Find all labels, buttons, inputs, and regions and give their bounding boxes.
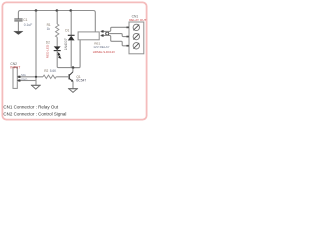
wire D1 column upper stub [70, 11, 72, 36]
capacitor C1 [14, 18, 32, 31]
svg-text:CN1 Connector : Relay Out: CN1 Connector : Relay Out [3, 105, 59, 110]
ground (below C1) [14, 31, 23, 34]
svg-text:D2: D2 [46, 41, 50, 45]
svg-text:0.1uF: 0.1uF [24, 23, 32, 27]
wire D1 to collector wire [70, 40, 72, 67]
wire +12V top rail [18, 11, 95, 32]
ground (emitter) [68, 89, 78, 93]
diode D1 1N4007 [64, 29, 75, 51]
svg-text:1k: 1k [47, 27, 51, 31]
svg-text:12V RELAY: 12V RELAY [93, 45, 109, 49]
resistor R2 [43, 69, 57, 79]
wire R1 column upper stub [56, 11, 58, 25]
svg-text:1N4007: 1N4007 [64, 38, 68, 50]
LED D2 [46, 41, 61, 59]
svg-text:RED LED: RED LED [46, 44, 50, 58]
svg-text:RELAY OUT: RELAY OUT [129, 18, 146, 22]
relay contact NC [101, 30, 104, 32]
relay contact NO [101, 34, 104, 36]
CN1 screw terminal 3 [133, 43, 139, 49]
node SIG crossing [35, 76, 37, 78]
resistor R1 [47, 23, 59, 37]
wire SIG / base wire [21, 76, 44, 78]
connector CN1 [126, 15, 146, 54]
svg-text:HRS4H-S-DC12V: HRS4H-S-DC12V [93, 50, 115, 54]
CN1 screw terminal 1 [133, 24, 139, 30]
wire CN2 GND to ground [21, 80, 37, 82]
node junction on rail (SIG column) [35, 9, 38, 12]
svg-text:R2: R2 [44, 69, 48, 73]
wire relay coil to collector node [73, 40, 80, 68]
node collector junction [72, 66, 75, 69]
node junction on rail (R1 column) [56, 9, 59, 12]
connector CN2 [10, 62, 27, 88]
wire SIG vertical column [35, 11, 37, 86]
ground (CN2) [31, 85, 41, 89]
transistor Q1 BC547 [69, 68, 86, 83]
wire pole to CN1 pin2 [109, 34, 129, 37]
border frame [2, 2, 146, 119]
svg-text:INPUT: INPUT [10, 66, 20, 70]
svg-text:BC547: BC547 [76, 79, 86, 83]
node junction on rail (D1 column) [70, 9, 73, 12]
wire NO to CN1 pin3 [104, 36, 129, 46]
relay coil RE1 [78, 32, 115, 54]
wire R1 to LED [56, 37, 58, 46]
svg-text:5.6K: 5.6K [50, 69, 57, 73]
svg-text:CN2 Connector : Control Signal: CN2 Connector : Control Signal [3, 112, 66, 117]
wire R2 to base [56, 76, 69, 78]
svg-text:D1: D1 [65, 29, 69, 33]
wire emitter to ground [72, 81, 74, 88]
svg-text:C1: C1 [23, 18, 27, 22]
wire NC to CN1 pin1 [104, 27, 129, 31]
wire LED to collector node [57, 51, 80, 68]
CN1 screw terminal 2 [133, 33, 139, 39]
relay contact pole [106, 32, 109, 35]
